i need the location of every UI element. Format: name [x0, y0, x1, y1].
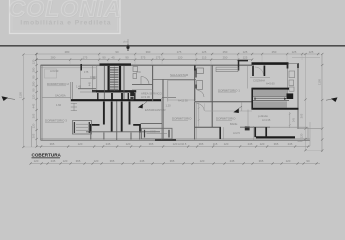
- bath extra dark marks: [195, 66, 196, 89]
- svg-text:120: 120: [286, 159, 291, 163]
- right stair direction line: [255, 98, 287, 100]
- wc fixtures: [133, 67, 138, 72]
- wc partition vertical: [152, 65, 154, 101]
- leader arrow right edge: [326, 97, 338, 102]
- cozinha corridor vertical: [247, 66, 249, 89]
- svg-text:DORMITORIO 2: DORMITORIO 2: [47, 82, 69, 86]
- svg-text:90: 90: [125, 56, 129, 60]
- bottom dimension line row 2: [30, 163, 320, 165]
- svg-text:Imobiliária e Predileta: Imobiliária e Predileta: [20, 19, 111, 26]
- service area line: [162, 97, 176, 99]
- svg-text:A=9.90: A=9.90: [50, 69, 59, 73]
- tick marks left vertical: [35, 53, 37, 148]
- svg-text:120: 120: [200, 159, 205, 163]
- svg-text:1.20: 1.20: [166, 104, 172, 108]
- interior wall dark top stub: [287, 64, 289, 69]
- svg-text:125: 125: [292, 50, 297, 54]
- right stair left wall: [251, 88, 253, 110]
- svg-text:120: 120: [224, 142, 229, 146]
- bottom exterior wall (double line): [41, 138, 311, 140]
- tiny room labels: [45, 69, 275, 146]
- kitchen top wall: [141, 123, 163, 125]
- right vertical dimension line outer: [321, 54, 323, 152]
- corridor faint line: [205, 110, 252, 112]
- left unit fixture box: [73, 121, 92, 135]
- svg-text:p.direito: p.direito: [258, 114, 268, 118]
- svg-text:365: 365: [149, 142, 154, 146]
- bottom dim numbers row 1: [50, 139, 303, 146]
- lower room right light wall: [307, 127, 309, 141]
- leader arrow left edge: [2, 96, 16, 101]
- core landing dark band upper: [92, 90, 136, 92]
- svg-text:280: 280: [51, 56, 56, 60]
- left unit closet horizontal: [81, 78, 97, 80]
- svg-text:280: 280: [32, 67, 36, 72]
- lower partition right unit (double): [194, 102, 196, 140]
- svg-text:1.60: 1.60: [56, 103, 62, 107]
- tick marks right vertical: [304, 53, 323, 152]
- svg-text:365: 365: [170, 159, 175, 163]
- small dim marks below sacada: [71, 103, 77, 111]
- wc door swing: [141, 77, 149, 85]
- svg-text:245: 245: [230, 159, 235, 163]
- bath fixture 2: [197, 81, 203, 90]
- svg-text:120: 120: [300, 133, 304, 138]
- svg-text:375: 375: [141, 56, 146, 60]
- dim extension right of building: [298, 128, 322, 130]
- top wall dark segment (stair core): [100, 63, 132, 65]
- right stair bottom wall: [252, 108, 299, 110]
- svg-text:365: 365: [259, 159, 264, 163]
- svg-text:175: 175: [177, 50, 182, 54]
- svg-text:COLONIA: COLONIA: [8, 0, 121, 22]
- svg-text:120: 120: [63, 159, 68, 163]
- svg-text:120: 120: [34, 159, 39, 163]
- inner vertical dim near 289: [289, 112, 291, 128]
- section marker on separator: [123, 39, 130, 51]
- svg-text:245: 245: [140, 159, 145, 163]
- svg-text:365: 365: [274, 142, 279, 146]
- kitchen counter box: [142, 128, 173, 139]
- left vertical dim numbers (rotated): [32, 59, 36, 138]
- dark stubs right lower: [254, 127, 256, 137]
- svg-text:280: 280: [65, 50, 70, 54]
- svg-text:plan: plan: [123, 40, 129, 44]
- svg-text:1105: 1105: [317, 79, 321, 85]
- svg-text:DORMITORIO: DORMITORIO: [216, 117, 236, 121]
- shaft dark blob 2: [130, 97, 133, 100]
- outer left dim ticks: [22, 53, 24, 148]
- left exterior wall (double line): [40, 65, 42, 140]
- dark stub on top wall left unit: [80, 64, 82, 71]
- lower core wall pair 4: [129, 102, 131, 125]
- tick marks top row 2: [35, 58, 253, 60]
- svg-text:90: 90: [32, 75, 36, 79]
- sacada line: [42, 96, 71, 98]
- svg-text:DORMITORIO: DORMITORIO: [172, 117, 192, 121]
- svg-text:1105: 1105: [18, 92, 22, 98]
- tick marks bottom row 1: [40, 145, 309, 147]
- svg-text:120: 120: [173, 142, 178, 146]
- svg-text:A=2.5: A=2.5: [233, 131, 240, 135]
- core landing stubs: [98, 93, 135, 100]
- right stair landing blob: [287, 93, 294, 99]
- label sala underline: [170, 76, 186, 78]
- svg-text:125: 125: [202, 50, 207, 54]
- center stair flank wall right: [123, 66, 125, 99]
- light vertical lower room divider: [223, 127, 225, 139]
- svg-text:175: 175: [84, 70, 89, 74]
- bath partition vertical: [194, 65, 196, 102]
- svg-text:120: 120: [32, 123, 36, 128]
- left unit partition horizontal: [78, 88, 96, 90]
- svg-text:445: 445: [32, 103, 36, 108]
- right exterior wall: [297, 63, 299, 129]
- svg-text:ESTAR/JANTAR: ESTAR/JANTAR: [145, 108, 166, 112]
- extension lines from top dims to wall: [70, 54, 302, 64]
- svg-text:250: 250: [272, 50, 277, 54]
- plan linework: [23, 53, 323, 165]
- svg-text:245: 245: [293, 117, 296, 122]
- fixture box inner marks: [73, 122, 75, 133]
- building top exterior wall: [41, 64, 253, 66]
- label underline: [47, 85, 66, 87]
- faint furniture left unit: [45, 69, 57, 78]
- svg-text:A=5.60: A=5.60: [266, 82, 275, 86]
- left unit shelf line: [80, 91, 96, 93]
- center stair core right wall: [119, 66, 121, 93]
- svg-text:280: 280: [32, 81, 36, 86]
- svg-text:365: 365: [110, 159, 115, 163]
- svg-text:115: 115: [202, 56, 207, 60]
- svg-text:120: 120: [78, 142, 83, 146]
- logo box frame: [10, 0, 121, 34]
- dorm partition wall vertical (double): [211, 65, 213, 127]
- outer left dim connectors: [23, 54, 36, 56]
- svg-text:245: 245: [106, 142, 111, 146]
- lower room top wall: [195, 126, 221, 128]
- svg-text:SACADA: SACADA: [55, 94, 66, 98]
- interior wall right of stair: [286, 64, 288, 94]
- svg-text:245: 245: [248, 142, 253, 146]
- faint vertical right lower: [253, 126, 255, 140]
- svg-text:A=10.5: A=10.5: [178, 142, 187, 146]
- svg-text:1.45: 1.45: [76, 85, 82, 89]
- svg-text:120: 120: [126, 142, 131, 146]
- bath fixtures right unit: [289, 71, 295, 78]
- core flank light verticals left: [91, 66, 93, 91]
- svg-text:365: 365: [300, 113, 304, 118]
- leader arrow right dorm: [233, 106, 242, 113]
- svg-text:DORMITORIO 1: DORMITORIO 1: [218, 88, 240, 92]
- center stair core left wall: [107, 66, 109, 93]
- leader arrow center hall: [138, 102, 147, 109]
- svg-text:BANH.: BANH.: [230, 122, 238, 126]
- left vertical dimension line: [36, 54, 38, 147]
- kitchen counter inner marks: [144, 130, 146, 138]
- lower core L-wall left: [91, 125, 100, 133]
- tick marks top row 1: [35, 53, 319, 55]
- lower core L-wall right: [133, 125, 140, 133]
- cozinha door arcs: [250, 67, 270, 78]
- sala room outline: [168, 81, 196, 100]
- right vertical dimension line inner: [304, 54, 306, 151]
- dimension numbers top row 2: [51, 56, 248, 60]
- center stair treads: [110, 68, 118, 90]
- svg-text:365: 365: [32, 113, 36, 118]
- inner vertical dim at right room: [309, 122, 311, 146]
- party wall between units: [162, 79, 164, 139]
- shaft dark blob: [130, 92, 134, 96]
- svg-text:125: 125: [243, 50, 248, 54]
- label dorm mid underline: [172, 119, 188, 121]
- label dorm right 1 underline: [218, 91, 236, 93]
- svg-text:SALA ESTAR: SALA ESTAR: [170, 73, 189, 77]
- svg-text:90: 90: [115, 50, 119, 54]
- right stair mid rails: [252, 96, 289, 98]
- left unit partition wall vertical pair: [70, 82, 72, 99]
- svg-text:125: 125: [243, 56, 248, 60]
- wall right lower rooms: [240, 126, 270, 128]
- svg-text:175: 175: [156, 56, 161, 60]
- svg-text:365: 365: [76, 159, 81, 163]
- hall line across: [86, 131, 160, 133]
- bath door swing: [198, 91, 205, 98]
- left unit closet vertical: [80, 71, 82, 89]
- svg-text:365: 365: [50, 142, 55, 146]
- top dimension line row 1: [36, 53, 320, 55]
- hall stubs down: [91, 133, 140, 140]
- light vertical left of lower cozinha: [241, 102, 243, 111]
- logo wordmark COLONIA: [8, 0, 122, 22]
- top dimension line row 2: [36, 59, 252, 61]
- lower core wall pair 2: [111, 102, 113, 132]
- bath fixture 1: [197, 68, 204, 73]
- svg-text:WC: WC: [136, 70, 142, 74]
- svg-text:125: 125: [309, 50, 314, 54]
- svg-text:45: 45: [111, 56, 115, 60]
- faint top-right dim line: [292, 57, 320, 59]
- right stair flight 2 treads: [254, 101, 286, 107]
- svg-text:120: 120: [260, 142, 265, 146]
- dark stub lower room: [219, 127, 221, 139]
- door stubs on right top wall: [252, 66, 254, 77]
- svg-text:90: 90: [32, 88, 36, 92]
- top wall dark segment right unit: [252, 62, 289, 65]
- center stair flank wall left: [103, 66, 105, 99]
- separator line: [0, 45, 345, 47]
- wc lower line: [132, 88, 153, 90]
- lower core wall pair 3: [121, 102, 123, 132]
- lower core center line: [116, 101, 118, 140]
- hall inner vertical: [167, 79, 169, 101]
- party wall second line: [161, 98, 163, 140]
- dark square fitting: [245, 126, 250, 130]
- corridor wall right unit: [195, 101, 252, 103]
- wc partition horizontal: [132, 84, 153, 86]
- left vertical dimension line 2: [31, 126, 33, 147]
- right stair top wall: [252, 88, 290, 90]
- svg-text:365: 365: [32, 133, 36, 138]
- svg-text:445: 445: [89, 81, 92, 86]
- svg-text:COZINHA: COZINHA: [253, 79, 265, 83]
- tick marks bottom row 2: [30, 162, 318, 164]
- svg-text:A=3.30: A=3.30: [141, 95, 150, 99]
- svg-text:250: 250: [223, 56, 228, 60]
- svg-text:DORMITORIO 3: DORMITORIO 3: [45, 119, 67, 123]
- svg-text:90: 90: [306, 159, 310, 163]
- svg-text:090: 090: [298, 139, 303, 143]
- svg-text:175: 175: [83, 56, 88, 60]
- label dormitorio left low underline: [45, 121, 64, 123]
- core mid dark wall: [71, 99, 161, 101]
- svg-text:115: 115: [213, 142, 218, 146]
- light vertical corridor right: [247, 110, 249, 128]
- bath dark fitting marks: [195, 69, 197, 78]
- svg-text:COBERTURA: COBERTURA: [32, 152, 62, 157]
- svg-text:390: 390: [146, 50, 151, 54]
- svg-text:90: 90: [102, 56, 106, 60]
- outer left vertical dimension line: [22, 55, 24, 148]
- lower room wall light continuation: [270, 126, 308, 128]
- svg-text:120: 120: [32, 94, 36, 99]
- hall top wall horizontal: [153, 78, 196, 80]
- svg-text:120: 120: [178, 56, 183, 60]
- lower core wall pair 1: [103, 102, 105, 125]
- svg-text:120: 120: [32, 59, 36, 64]
- label dorm right 2 underline: [216, 119, 232, 121]
- svg-text:COZ.: COZ.: [150, 130, 156, 134]
- svg-text:A=12.30: A=12.30: [178, 98, 188, 102]
- right stair flight 1 treads: [254, 90, 286, 97]
- right exterior wall top dark bit: [297, 63, 299, 68]
- bottom dim numbers row 2: [34, 159, 310, 163]
- svg-text:250: 250: [223, 50, 228, 54]
- svg-text:245: 245: [288, 142, 293, 146]
- svg-text:120: 120: [94, 159, 99, 163]
- svg-text:A=4.35: A=4.35: [262, 118, 271, 122]
- top wall inner face line: [41, 67, 97, 69]
- svg-text:365: 365: [199, 142, 204, 146]
- L-wall near kitchen entry: [239, 61, 249, 71]
- bottom wall dark segment right: [256, 136, 295, 138]
- dimension numbers top row 1: [65, 50, 314, 54]
- closet lines top right: [216, 67, 238, 72]
- bottom wall dark segment center: [155, 139, 176, 141]
- svg-text:245: 245: [51, 159, 56, 163]
- outer left rotated number: [18, 92, 22, 98]
- inner vertical dim near 198: [198, 103, 200, 127]
- right vertical dim numbers: [293, 79, 322, 139]
- corridor door arc: [197, 104, 205, 112]
- top wall thin continuation to right wall: [289, 63, 299, 65]
- bottom dimension line row 1: [36, 146, 310, 148]
- stair center rail: [113, 67, 115, 92]
- title COBERTURA: [32, 152, 62, 157]
